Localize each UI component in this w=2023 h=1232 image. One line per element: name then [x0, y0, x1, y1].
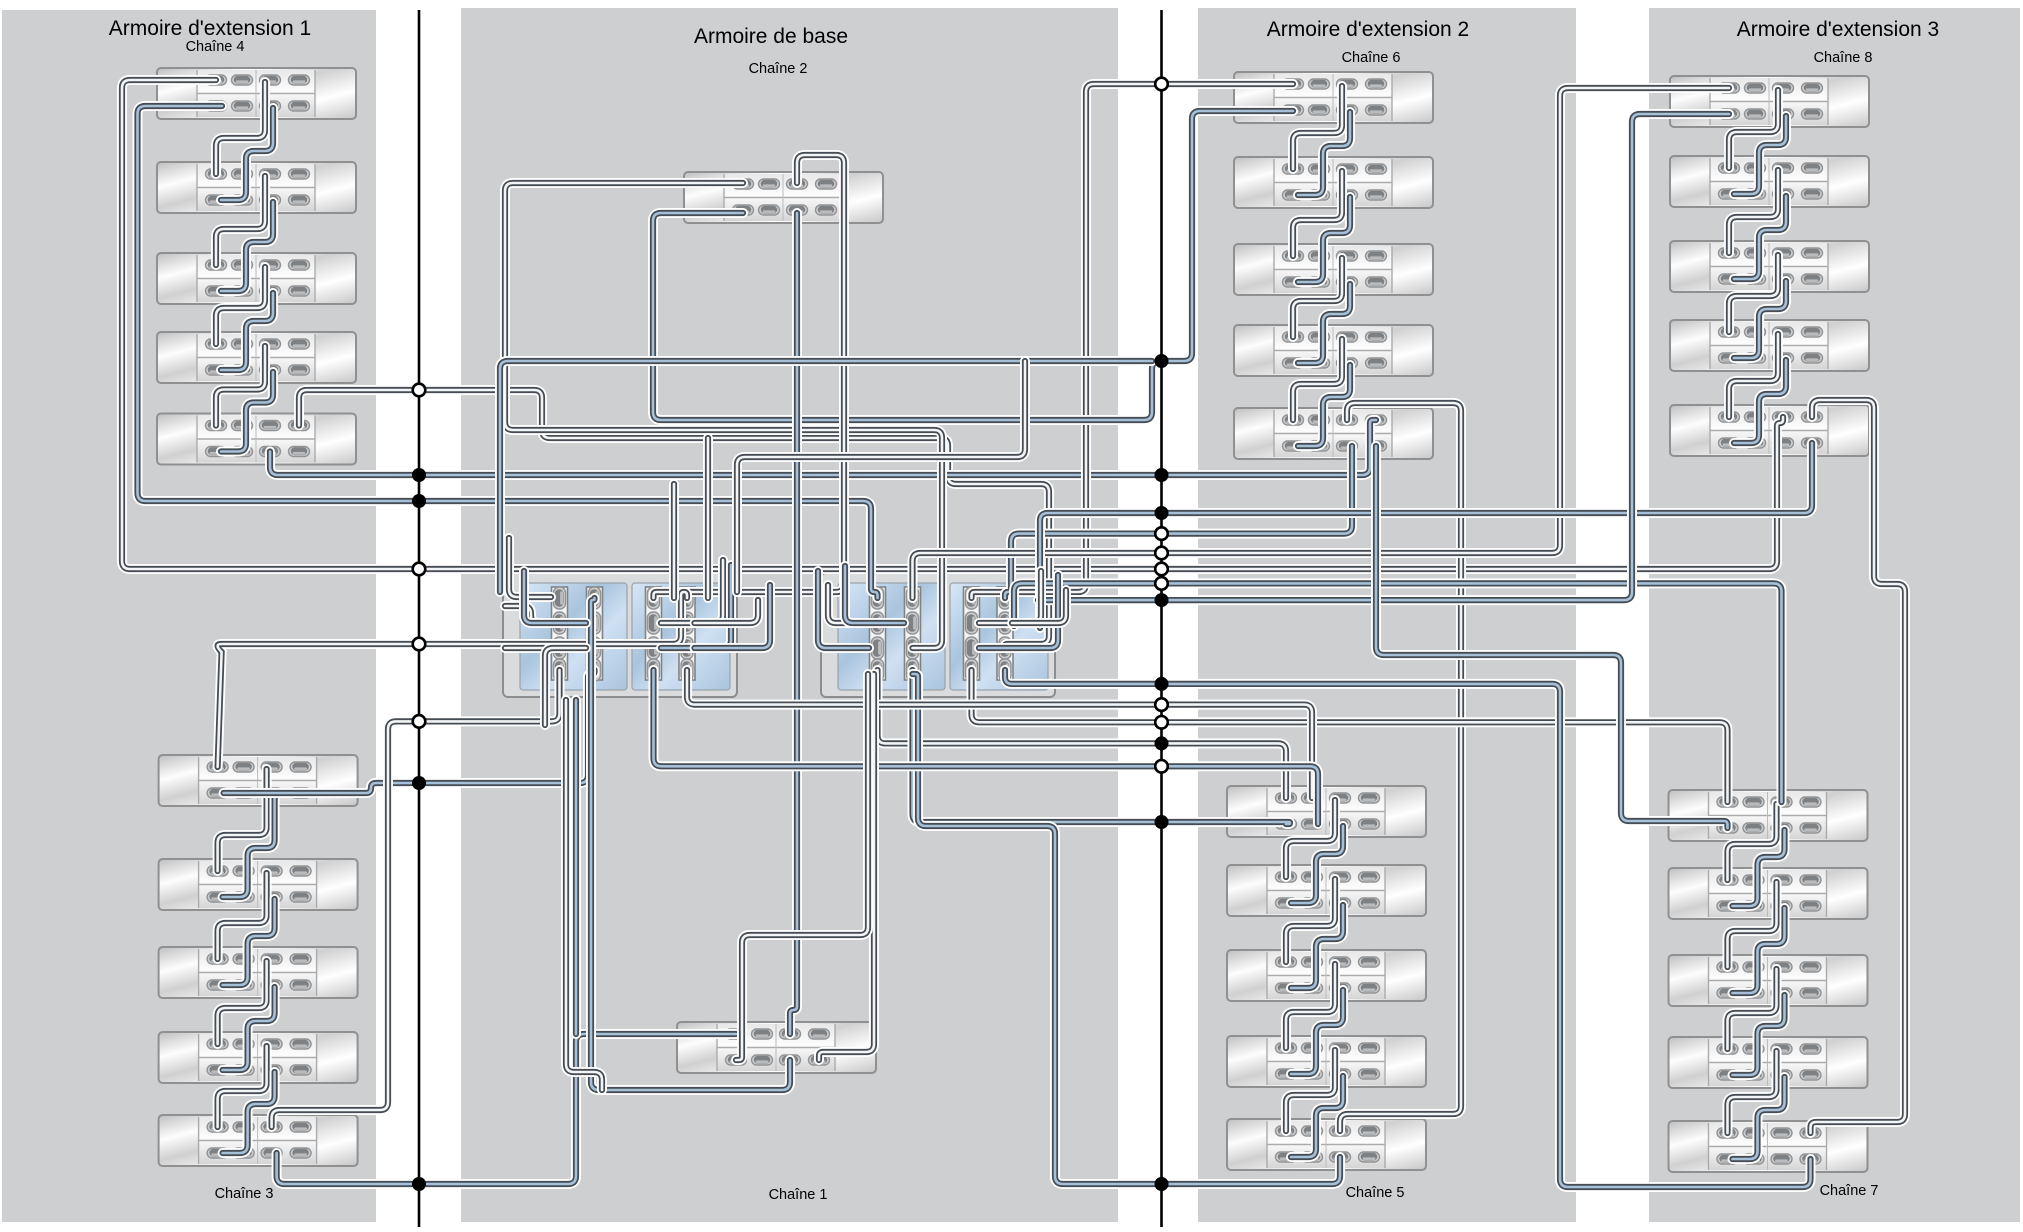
wire C1 shelf3->shelf4 dark: [1293, 258, 1342, 337]
disk shelf extension1 bottom 1: [159, 755, 358, 806]
wire D2 shelf2->shelf3 blue: [1733, 908, 1785, 993]
wire A1 shelf1->shelf2 dark: [216, 82, 265, 174]
wire C2 shelf4->shelf5 blue: [1291, 1076, 1343, 1157]
wire base-top shelf port3 loop to controller1: [654, 155, 845, 598]
disk shelf extension3 bottom 2: [1669, 868, 1868, 919]
disk shelf extension2 bottom 1: [1227, 786, 1426, 837]
wire D1 shelf2->shelf3 blue: [1734, 196, 1786, 279]
wire D1 shelf3->shelf4 blue: [1734, 281, 1786, 358]
controller U1: [503, 573, 737, 697]
disk shelf extension1 top 4: [157, 332, 356, 383]
disk shelf extension3 top 5: [1670, 405, 1869, 456]
disk shelf extension3 bottom 5: [1669, 1121, 1868, 1172]
wire A ext1 shelf1 B-port to controller2: [138, 106, 878, 598]
disk shelf extension3 top 2: [1670, 156, 1869, 207]
wire D2 shelf1->shelf2 dark: [1728, 804, 1777, 880]
crossing circle right boundary y=766.3: [1155, 760, 1168, 773]
wire C1 shelf1->shelf2 blue: [1298, 112, 1350, 195]
disk shelf extension2 bottom 3: [1227, 950, 1426, 1001]
wire D2 shelf3->shelf4 dark: [1728, 969, 1777, 1049]
disk shelf extension3 top 4: [1670, 320, 1869, 371]
disk shelf extension2 bottom 2: [1227, 865, 1426, 916]
controller U2: [821, 573, 1055, 697]
disk shelf extension1 top 1: [157, 68, 356, 119]
crossing circle right boundary y=569: [1155, 563, 1168, 576]
wire C1 shelf2->shelf3 dark: [1293, 171, 1342, 256]
disk shelf extension2 bottom 4: [1227, 1036, 1426, 1087]
wire controller2 port stub a: [828, 585, 869, 623]
wire D1 shelf1->shelf2 blue: [1734, 116, 1786, 194]
svg-text:Chaîne 2: Chaîne 2: [749, 61, 808, 77]
wire base-bottom shelf port3 to controller1: [591, 598, 790, 1090]
wire controller2 to D ext3 shelf1 A-port: [913, 88, 1730, 598]
wire A2 shelf1->shelf2 dark: [218, 769, 267, 871]
junction dot right boundary y=475: [1155, 468, 1169, 482]
wire C1 shelf2->shelf3 blue: [1298, 197, 1350, 282]
wire C ext2 shelf5 B-port to controller2: [1005, 446, 1352, 598]
junction dot right boundary y=600.1: [1155, 593, 1169, 607]
disk shelf extension1 bottom 5: [159, 1115, 358, 1166]
junction dot left boundary y=1184: [412, 1177, 426, 1191]
wire D2 shelf2->shelf3 dark: [1728, 882, 1777, 967]
junction dot right boundary y=1184: [1155, 1177, 1169, 1191]
disk shelf base rack bottom: [677, 1022, 876, 1073]
wire D2 shelf3->shelf4 blue: [1733, 995, 1785, 1075]
disk shelf extension3 top 3: [1670, 241, 1869, 292]
disk shelf base rack top: [684, 172, 883, 223]
disk shelf extension3 bottom 1: [1669, 790, 1868, 841]
svg-text:Chaîne 6: Chaîne 6: [1342, 50, 1401, 66]
wire controller2 to base-bottom shelf port: [736, 674, 868, 1060]
svg-text:Armoire d'extension 2: Armoire d'extension 2: [1267, 18, 1469, 41]
svg-text:Chaîne 5: Chaîne 5: [1346, 1185, 1405, 1201]
svg-text:Chaîne 1: Chaîne 1: [769, 1187, 828, 1203]
wire controller2 port stub c: [845, 566, 904, 623]
svg-text:Chaîne 3: Chaîne 3: [215, 1186, 274, 1202]
wire A2 shelf3->shelf4 blue: [223, 987, 275, 1070]
disk shelf extension2 top 3: [1234, 244, 1433, 295]
wire base mid riser b: [571, 700, 581, 1034]
wire controller2 to D ext3 bottom shelf1 A-port: [972, 670, 1728, 802]
junction dot left boundary y=783: [412, 776, 426, 790]
wire C ext2 shelf5 port4 to D ext3 bottom shelf1 B-port: [1376, 446, 1728, 828]
wire C ext2 shelf5 to bottom shelf5 trunk: [1340, 403, 1461, 1131]
crossing circle left boundary y=390: [413, 384, 426, 397]
wire C2 shelf1->shelf2 blue: [1291, 826, 1343, 903]
wire base-top shelf port to base-bottom shelf: [790, 213, 797, 1034]
disk shelf extension2 top 1: [1234, 72, 1433, 123]
wire C1 shelf3->shelf4 blue: [1298, 284, 1350, 363]
wire controller2 drop to base-bottom: [819, 674, 874, 1060]
wire controller1 port stub g: [661, 565, 731, 648]
wire base-top shelf B-port to C ext2 shelf1 B-port: [653, 111, 1293, 420]
wire A ext1 bottom shelf1 B-port to controller1: [224, 670, 595, 793]
wire A2 shelf1->shelf2 blue: [223, 795, 275, 897]
rack panel: Armoire d'extension 2: [1198, 8, 1576, 1222]
wire C1 shelf1->shelf2 dark: [1293, 86, 1342, 169]
junction dot left boundary y=501: [412, 494, 426, 508]
wire A2 shelf3->shelf4 dark: [218, 961, 267, 1044]
wire C2 shelf2->shelf3 blue: [1291, 905, 1343, 988]
wire A ext1 shelf5 B-port to C ext2 shelf5 port4: [270, 420, 1376, 475]
wire controller1 port stub d: [524, 571, 586, 623]
svg-text:Armoire d'extension 3: Armoire d'extension 3: [1737, 18, 1939, 41]
disk shelf extension1 bottom 3: [159, 947, 358, 998]
wire A ext1 bottom shelf5 B-port to base-bottom shelf: [277, 1034, 736, 1184]
crossing circle right boundary y=583.4: [1155, 577, 1168, 590]
wire C ext2 shelf1 A-port to controller2: [972, 84, 1294, 598]
disk shelf extension1 top 5: [157, 414, 356, 465]
wire D1 shelf4->shelf5 dark: [1729, 334, 1778, 417]
wire A2 shelf4->shelf5 dark: [218, 1046, 267, 1127]
wire controller1 port stub a: [509, 538, 551, 597]
svg-text:Chaîne 7: Chaîne 7: [1820, 1183, 1879, 1199]
wire controller1 strip4 riser: [703, 438, 713, 598]
rack panel: Armoire d'extension 1: [2, 10, 376, 1222]
wire C2 shelf3->shelf4 dark: [1286, 964, 1335, 1048]
wire controller1 port stub f: [661, 560, 723, 623]
svg-text:Chaîne 8: Chaîne 8: [1814, 50, 1873, 66]
wire A2 shelf2->shelf3 dark: [218, 873, 267, 959]
junction dot left boundary y=475: [412, 468, 426, 482]
junction dot right boundary y=361: [1155, 354, 1169, 368]
wire controller1 to C ext2 bottom shelf1 port2b: [654, 670, 1319, 824]
crossing circle right boundary y=722.3: [1155, 716, 1168, 729]
wire base left riser: [500, 361, 1152, 592]
wire D1 shelf3->shelf4 dark: [1729, 255, 1778, 332]
wire controller2 to D ext3 bottom shelf5 B-port: [1005, 670, 1811, 1187]
wire base-top shelf A-port to controller2: [505, 183, 942, 648]
rack boundary line left: [418, 10, 421, 1227]
wire C1 shelf4->shelf5 blue: [1298, 365, 1350, 446]
svg-text:Chaîne 4: Chaîne 4: [186, 39, 245, 55]
wire A1 shelf2->shelf3 dark: [216, 176, 265, 265]
rack boundary line right: [1160, 10, 1163, 1227]
disk shelf extension3 bottom 3: [1669, 955, 1868, 1006]
wire D1 shelf4->shelf5 blue: [1734, 360, 1786, 443]
wire A1 shelf4->shelf5 dark: [216, 346, 265, 426]
crossing circle right boundary y=84: [1155, 78, 1168, 91]
wire controller2 to D ext3 bottom shelf1 port3: [1014, 583, 1782, 802]
crossing circle right boundary y=553: [1155, 547, 1168, 560]
wire D2 shelf4->shelf5 blue: [1733, 1077, 1785, 1159]
wire A ext1 bottom shelf1 A-port to controller1: [218, 592, 687, 767]
wire C1 shelf4->shelf5 dark: [1293, 339, 1342, 420]
wire C2 shelf4->shelf5 dark: [1286, 1050, 1335, 1131]
wire base mid riser: [566, 700, 602, 1090]
junction dot right boundary y=683.9: [1155, 677, 1169, 691]
wire A2 shelf4->shelf5 blue: [223, 1072, 275, 1153]
junction dot right boundary y=743.4: [1155, 736, 1169, 750]
disk shelf extension1 top 3: [157, 253, 356, 304]
svg-text:Armoire d'extension 1: Armoire d'extension 1: [109, 17, 311, 40]
wire controller1 strip3 riser: [669, 484, 679, 598]
crossing circle left boundary y=644: [413, 638, 426, 651]
rack panel: Armoire d'extension 3: [1649, 8, 2020, 1222]
wire A1 shelf1->shelf2 blue: [221, 108, 273, 200]
wire controller2 to C ext2 bottom shelf1 B-port: [913, 670, 1291, 824]
wire controller2 port stub d: [979, 571, 1041, 623]
wire controller2 to D ext3 shelf1 B-port: [1038, 114, 1729, 600]
wire D1 shelf2->shelf3 dark: [1729, 170, 1778, 253]
wire controller2 port stub f: [1012, 590, 1066, 623]
svg-text:Armoire de base: Armoire de base: [694, 25, 848, 48]
wire controller1 to C ext2 bottom shelf1 port2: [687, 670, 1312, 798]
wire C2 shelf2->shelf3 dark: [1286, 879, 1335, 962]
wire D2 shelf4->shelf5 dark: [1728, 1051, 1777, 1133]
junction dot right boundary y=822: [1155, 815, 1169, 829]
wire A ext1 shelf1 A-port to D ext3 shelf5 port3: [122, 80, 1783, 569]
wire controller1 to A ext1 bottom shelf5: [272, 670, 560, 1127]
wire controller1 port stub e: [545, 648, 586, 725]
disk shelf extension3 bottom 4: [1669, 1037, 1868, 1088]
crossing circle right boundary y=704.6: [1155, 698, 1168, 711]
wire controller2 port stub e: [979, 575, 1058, 648]
disk shelf extension2 top 4: [1234, 325, 1433, 376]
wire A ext1 shelf5 port4 to controller2: [299, 390, 1049, 648]
disk shelf extension2 top 5: [1234, 408, 1433, 459]
wire A1 shelf2->shelf3 blue: [221, 202, 273, 291]
wire A1 shelf4->shelf5 blue: [221, 372, 273, 452]
wire C2 shelf1->shelf2 dark: [1286, 800, 1335, 877]
wire controller2 to C ext2 bottom shelf1 A-port: [878, 670, 1287, 798]
wire D ext3 shelf5 B-port to controller2: [1040, 443, 1812, 628]
wire controller1 port stub h: [695, 600, 759, 623]
wire D ext3 shelf5 to bottom shelf5 trunk: [1811, 400, 1906, 1133]
rack panel: Armoire de base: [461, 8, 1118, 1222]
wire controller2 port stub b: [818, 571, 869, 648]
disk shelf extension3 top 1: [1670, 76, 1869, 127]
wire C ext2 bottom shelf5 B-port to controller2: [913, 674, 1341, 1184]
disk shelf extension1 bottom 2: [159, 859, 358, 910]
wire C2 shelf3->shelf4 blue: [1291, 990, 1343, 1074]
junction dot right boundary y=513: [1155, 506, 1169, 520]
wire A2 shelf2->shelf3 blue: [223, 899, 275, 985]
crossing circle left boundary y=721.4: [413, 715, 426, 728]
wire D2 shelf1->shelf2 blue: [1733, 830, 1785, 906]
wire A1 shelf3->shelf4 blue: [221, 293, 273, 370]
wire controller1 port stub i: [695, 585, 771, 648]
disk shelf extension2 bottom 5: [1227, 1119, 1426, 1170]
wire controller1 port stub c: [505, 643, 551, 653]
wire controller1 port stub b: [505, 606, 551, 623]
crossing circle right boundary y=533.6: [1155, 527, 1168, 540]
wire base mid crossover: [737, 361, 1025, 592]
disk shelf extension1 top 2: [157, 162, 356, 213]
crossing circle left boundary y=569: [413, 563, 426, 576]
wire A1 shelf3->shelf4 dark: [216, 267, 265, 344]
wire D1 shelf1->shelf2 dark: [1729, 90, 1778, 168]
disk shelf extension1 bottom 4: [159, 1032, 358, 1083]
disk shelf extension2 top 2: [1234, 157, 1433, 208]
